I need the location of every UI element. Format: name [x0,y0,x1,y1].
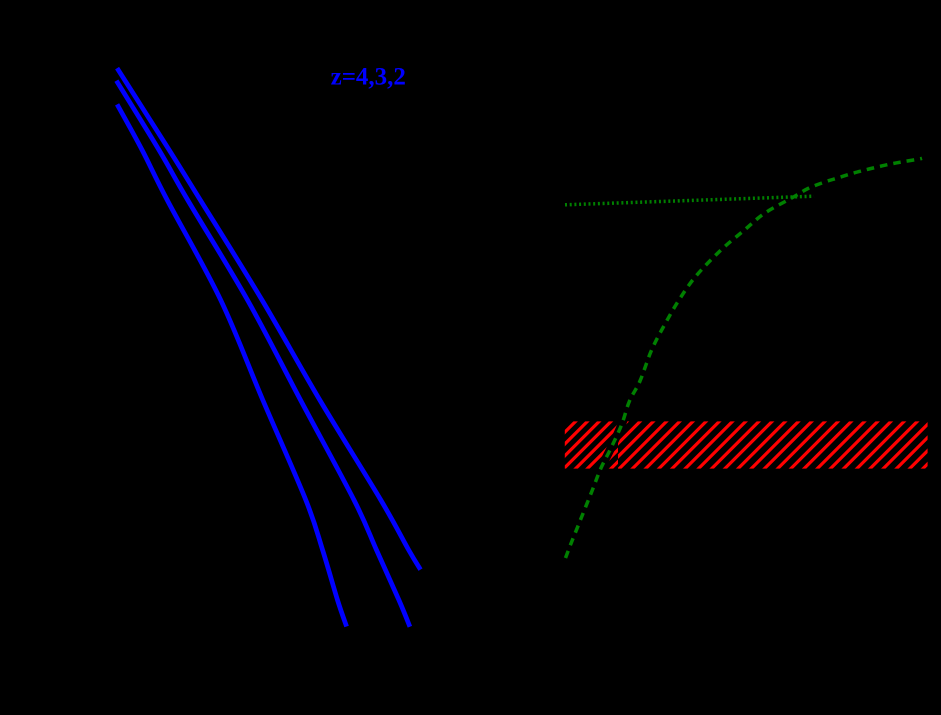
green dashed curve black halo [566,158,923,558]
green dashed curve [566,158,923,558]
blue curve z=4 (leftmost) [117,104,347,626]
red hatched box left (dense 45-deg hatch) [520,413,666,476]
blue curve z=2 (rightmost) [117,68,420,569]
red hatched box right (45-deg hatch) [559,413,941,476]
blue curve z=3 (middle) [116,81,410,627]
green dotted line [565,196,814,205]
svg-text:z=4,3,2: z=4,3,2 [331,64,406,91]
